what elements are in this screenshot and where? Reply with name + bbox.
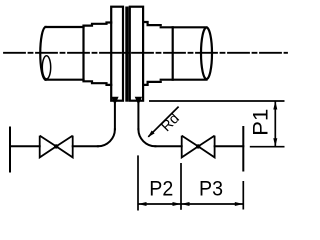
left tap xyxy=(111,97,118,105)
P3 right extension line xyxy=(242,181,244,210)
left impulse horizontal wire xyxy=(73,145,98,147)
pipe centerline xyxy=(4,52,287,54)
right hub bottom profile xyxy=(143,82,161,85)
P1 lower extension line xyxy=(250,146,285,148)
left weld line xyxy=(82,27,84,80)
right pipe continuation tick xyxy=(242,127,244,171)
P1 dim arrow down xyxy=(273,138,277,147)
left pipe top wall xyxy=(46,26,84,28)
right flange ring xyxy=(130,7,143,101)
left supply wire xyxy=(10,145,40,147)
Rd leader arrowhead xyxy=(148,131,155,138)
left hub top profile xyxy=(84,23,112,26)
Rd leader line xyxy=(148,107,178,137)
left impulse stem xyxy=(114,103,116,129)
right impulse horizontal wire xyxy=(155,145,181,147)
right pipe top wall xyxy=(161,26,207,28)
left pipe break inner curl xyxy=(42,56,50,79)
svg-text:P1: P1 xyxy=(248,109,272,136)
svg-text:P3: P3 xyxy=(199,177,223,201)
P1 upper extension line xyxy=(149,100,285,102)
right weld line xyxy=(172,27,174,79)
svg-text:P2: P2 xyxy=(149,177,173,201)
left pipe continuation tick xyxy=(9,128,11,172)
right pipe bottom wall xyxy=(161,79,207,81)
right impulse bend xyxy=(138,129,155,146)
right hub top profile xyxy=(143,22,161,25)
left flange ring xyxy=(111,7,123,101)
left pipe bottom wall xyxy=(46,79,84,81)
right impulse stem xyxy=(137,103,139,129)
left pipe break outer arc xyxy=(40,27,45,80)
P2 dim arrow right xyxy=(173,202,182,206)
P3 dim arrow left xyxy=(181,202,190,206)
valve V2 body xyxy=(182,136,215,158)
P3 dim arrow right xyxy=(235,202,244,206)
P2 left extension line xyxy=(137,155,139,210)
P1 dim arrow up xyxy=(273,101,277,110)
valve V2 stem dot xyxy=(196,144,200,148)
P1 dimension line xyxy=(274,101,276,147)
left impulse bend xyxy=(98,129,115,146)
right downstream wire xyxy=(215,145,244,147)
P2 P3 dimension line xyxy=(138,203,243,205)
valve V1 body xyxy=(40,136,73,158)
valve V1 stem dot xyxy=(54,144,58,148)
P2/P3 middle extension line xyxy=(180,163,182,210)
left hub bottom profile xyxy=(84,81,112,85)
right tap xyxy=(135,97,142,105)
right pipe end ellipse xyxy=(201,28,212,80)
P2 dim arrow left xyxy=(138,202,147,206)
